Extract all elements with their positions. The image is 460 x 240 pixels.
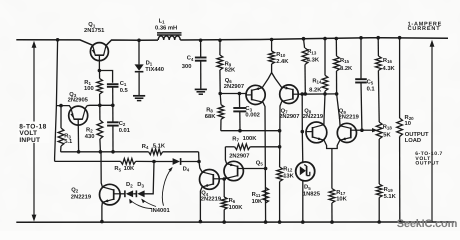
svg-text:10K: 10K [124, 165, 135, 172]
node R14 bus [323, 92, 327, 96]
wire Q9 base to node [357, 129, 362, 131]
node C2 bottom [111, 150, 115, 154]
line3: R8/C3 to Q7 collector [221, 130, 280, 132]
wire down to D5 [301, 132, 304, 164]
wire Q6 base lead [220, 93, 247, 95]
svg-text:100K: 100K [243, 135, 258, 142]
resistor R2 [97, 120, 103, 139]
svg-text:300: 300 [182, 63, 192, 70]
svg-text:2N2219: 2N2219 [303, 113, 324, 120]
wire Q7 collector down [280, 101, 282, 167]
svg-text:OUTPUT: OUTPUT [405, 131, 429, 138]
svg-text:R5: R5 [114, 166, 121, 172]
node R20 on rail [398, 220, 402, 224]
resistor R17 [329, 189, 335, 204]
vertical input line V1 from rail [56, 38, 60, 42]
svg-text:4.3K: 4.3K [307, 57, 320, 64]
svg-text:R19: R19 [384, 187, 394, 193]
arrow IN4001 to D3 [142, 199, 156, 206]
wire Q5 emitter up to R7 line [225, 147, 226, 164]
wire Q4 collector to D4 node [199, 162, 202, 173]
node R2 bottom / Q2 collector [99, 150, 103, 154]
wire Q2 emitter down to rail [101, 202, 104, 222]
svg-text:INPUT: INPUT [19, 137, 40, 144]
svg-text:LOAD: LOAD [405, 137, 421, 144]
svg-text:10K: 10K [336, 196, 347, 203]
wire Q2 collector up to line1 [101, 152, 103, 188]
svg-text:430: 430 [85, 133, 95, 140]
arrow IN4001 to D4 [162, 168, 172, 206]
node Q8 base [301, 130, 305, 134]
resistor R13 from rail [302, 37, 306, 41]
svg-text:2N2905: 2N2905 [68, 97, 89, 104]
node Q5 base tap [264, 167, 268, 171]
wire Q4 base right [220, 178, 225, 180]
node C3 bottom [238, 129, 242, 133]
resistor R12 (in Q7 collector line) [277, 167, 283, 182]
node line3 to Q7 collector [278, 129, 282, 133]
capacitor C2 [107, 121, 119, 123]
wire down from D2/D3 node [145, 162, 155, 194]
text 8-TO-18 VOLT INPUT [18, 122, 50, 144]
capacitor C1 [107, 83, 119, 85]
svg-text:R16: R16 [383, 58, 393, 64]
svg-text:D1: D1 [146, 60, 153, 66]
node R11 on rail [264, 220, 268, 224]
svg-text:R8: R8 [206, 107, 213, 113]
R9/R8 chain from rail [218, 39, 222, 43]
diode D4 [173, 158, 180, 165]
node R7 to Q7 collector line [278, 145, 282, 149]
diode D3 [135, 190, 137, 197]
node Q1 base / R1 / C1 [98, 69, 102, 73]
svg-text:2N1751: 2N1751 [84, 27, 105, 34]
resistor R14 from rail [323, 37, 327, 41]
svg-text:R17: R17 [336, 190, 346, 196]
transistor Q6 2N2907 [245, 85, 265, 104]
svg-text:R10: R10 [276, 52, 286, 58]
resistor R3 [60, 106, 62, 128]
resistor R15 from rail [335, 37, 339, 41]
ground C4 [195, 88, 207, 90]
top input rail (left segment) [16, 40, 93, 46]
resistor R19 [376, 184, 382, 198]
wire D5 to rail [302, 180, 304, 222]
node R17 on rail [330, 220, 334, 224]
node Q9 base / C5 / wiper [360, 128, 364, 132]
svg-text:R1: R1 [84, 80, 91, 86]
svg-text:CURRENT: CURRENT [408, 26, 441, 32]
capacitor C3 [238, 94, 240, 109]
resistor R5 (horizontal) [121, 159, 136, 165]
svg-text:2.4K: 2.4K [276, 58, 289, 65]
transistor Q7 2N2907 [280, 85, 299, 104]
potentiometer R18 [376, 122, 382, 139]
svg-text:8.2K: 8.2K [340, 65, 353, 72]
node D2/D3 branch [152, 160, 156, 164]
resistor R20 output load from rail [398, 36, 402, 40]
svg-text:D4: D4 [183, 166, 190, 172]
svg-text:0.002: 0.002 [245, 112, 260, 119]
node R4/D4/Q4 collector [197, 160, 201, 164]
resistor R11 (in Q6 collector line, bottom) [263, 188, 269, 204]
node R6 on rail [222, 220, 226, 224]
svg-text:0.01: 0.01 [119, 127, 131, 134]
node R12 on rail [278, 220, 282, 224]
ground D1 [133, 95, 145, 97]
wire Q3 base down to line1 [77, 119, 79, 152]
svg-text:R14: R14 [312, 78, 322, 84]
svg-text:2N2907: 2N2907 [229, 152, 249, 159]
svg-text:R12: R12 [283, 166, 293, 172]
wire to C1 top [99, 71, 112, 83]
svg-text:D3: D3 [137, 182, 144, 188]
node R3 top on Q3 emitter lead [59, 104, 63, 108]
svg-text:13K: 13K [283, 172, 294, 179]
svg-text:0.36 mH: 0.36 mH [155, 25, 177, 32]
wire Q3 collector to R1/C1 bottom [87, 104, 113, 106]
svg-text:5.1K: 5.1K [384, 194, 397, 200]
output current indicator line [431, 43, 433, 222]
svg-text:D2: D2 [126, 182, 133, 188]
transistor Q9 2N2219 [337, 123, 357, 142]
node C3 top tap [238, 92, 242, 96]
wire corner down to D4 node [198, 152, 200, 162]
transistor Q5 2N2907 [224, 161, 244, 180]
transistor Q8 2N2219 [305, 122, 326, 143]
svg-text:R15: R15 [340, 58, 350, 64]
line2: input line to R5/D4 [55, 160, 121, 162]
resistor R8 [219, 94, 222, 105]
node D5 on rail [301, 220, 305, 224]
input arrow line 8-TO-18 [33, 44, 35, 220]
svg-text:8.2K: 8.2K [309, 87, 322, 94]
resistor R7 (horizontal) [235, 144, 251, 150]
zener D5 in circle [296, 162, 315, 181]
resistor R6 [223, 179, 225, 197]
node R19 on rail [377, 220, 381, 224]
svg-text:R4: R4 [142, 144, 149, 150]
node R13 bus [304, 92, 308, 96]
svg-text:2N2907: 2N2907 [279, 113, 299, 120]
svg-text:2N2907: 2N2907 [224, 83, 244, 90]
node C1/C2 [111, 104, 115, 108]
wiper arrow to R18 [362, 129, 375, 131]
svg-text:TIX440: TIX440 [145, 66, 164, 73]
svg-text:82K: 82K [225, 67, 236, 74]
wire down to Q9 collector [337, 94, 341, 126]
diode D1 freewheel [137, 39, 141, 43]
resistor R1 [99, 71, 101, 79]
svg-text:5.1: 5.1 [64, 139, 73, 145]
node Q4 base / Q5 collector / R6 [222, 177, 226, 181]
transistor Q2 2N2219 [100, 184, 121, 205]
svg-text:R6: R6 [229, 198, 236, 204]
resistor R4 (horizontal) [149, 149, 163, 155]
node Q2 emitter on rail [100, 220, 104, 224]
svg-text:0.5: 0.5 [120, 87, 129, 94]
svg-text:L1: L1 [159, 19, 166, 25]
svg-text:R13: R13 [307, 49, 317, 55]
svg-text:4.3K: 4.3K [383, 65, 396, 72]
svg-text:R7: R7 [232, 136, 239, 142]
svg-text:5.1K: 5.1K [153, 144, 166, 150]
emitter join Q8/Q9 to R17 [324, 140, 340, 149]
svg-text:10: 10 [405, 120, 411, 127]
node Q8 base line tap [300, 92, 304, 96]
diode D2 [124, 190, 126, 197]
svg-text:2N2219: 2N2219 [339, 113, 360, 120]
fork to Q6/Q7 emitters [262, 73, 282, 88]
bottom ground rail [16, 221, 454, 223]
resistor R10 from rail [270, 38, 274, 42]
transistor Q4 2N2219 [200, 170, 220, 190]
wire Q3 collector lead right [85, 106, 87, 109]
wire Q4 emitter to rail [200, 187, 202, 222]
top output rail after D1 node to L1 [139, 39, 158, 41]
svg-text:68K: 68K [205, 113, 216, 120]
wire down to Q8 collector [324, 94, 325, 125]
svg-text:2N2219: 2N2219 [201, 196, 222, 203]
resistor R9 [217, 55, 223, 70]
wire Q1 base down [98, 55, 100, 70]
line1: R3/Q3base/R2/Q2coll/R4 horizontal [61, 151, 149, 153]
transistor Q3 2N2905 [69, 106, 88, 125]
top output rail from L1 to right end [180, 38, 448, 40]
wire D2-D3 [133, 193, 136, 195]
transistor Q1 2N1751 [90, 43, 108, 61]
svg-text:100K: 100K [229, 204, 244, 211]
wire Q3 emitter lead left [56, 106, 71, 109]
svg-text:10K: 10K [252, 198, 263, 205]
arrow IN4001 to D2 [130, 200, 152, 209]
svg-text:R2: R2 [86, 127, 93, 133]
svg-text:0.1: 0.1 [367, 85, 376, 92]
svg-text:1N825: 1N825 [303, 190, 321, 197]
inductor L1 [157, 33, 182, 40]
wire down to Q8 base [301, 94, 303, 132]
svg-text:R11: R11 [252, 192, 261, 198]
wire Q5 collector to Q4 base node [224, 178, 227, 179]
wire Q6 collector down (to R11/Q5 base) [263, 102, 266, 222]
capacitor C4 filter [199, 39, 203, 43]
capacitor C5 from rail [359, 36, 363, 40]
node R9/R8/Q6 base [218, 92, 222, 96]
svg-text:5K: 5K [383, 132, 391, 138]
resistor R16 from rail [376, 36, 380, 40]
svg-text:IN4001: IN4001 [151, 207, 170, 214]
node bus end R15/Q9 collector [335, 92, 339, 96]
svg-text:2N2219: 2N2219 [71, 193, 92, 200]
bias bus from Q7 base [299, 93, 337, 95]
R7 line [225, 146, 234, 148]
svg-text:OUTPUT: OUTPUT [415, 161, 439, 167]
node R1/R2 [98, 104, 102, 108]
node Q3 base on line1 [77, 150, 81, 154]
svg-text:SeekIC.com: SeekIC.com [397, 218, 458, 230]
wire R18 to R19 [378, 139, 380, 184]
svg-text:R18: R18 [383, 124, 393, 130]
wire Q5 base right [243, 168, 266, 170]
wire Q1 right to rail [106, 40, 139, 45]
node Q4 emitter on rail [199, 220, 203, 224]
svg-text:D5: D5 [304, 185, 311, 191]
svg-text:100: 100 [84, 85, 94, 92]
wire Q2 base to D2 [120, 193, 125, 195]
